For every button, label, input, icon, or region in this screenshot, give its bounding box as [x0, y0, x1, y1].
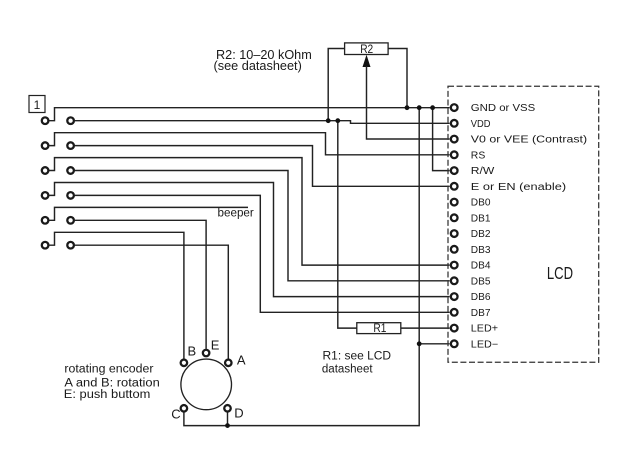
- wire beeper stub: row5 left pin: [49, 207, 248, 220]
- svg-text:(see datasheet): (see datasheet): [214, 59, 302, 73]
- svg-text:DB5: DB5: [471, 276, 491, 287]
- wire GND to R/W pin: [433, 108, 450, 171]
- LCD pin DB7: [451, 309, 458, 316]
- junction on GND wire at R/W branch: [430, 105, 435, 110]
- svg-text:DB4: DB4: [471, 261, 491, 272]
- svg-text:DB7: DB7: [471, 308, 491, 319]
- connector row 3 pins: [42, 167, 74, 174]
- svg-text:E: E: [211, 337, 220, 352]
- connector row 4 pins: [42, 192, 74, 199]
- junction on VDD wire at R2 left leg: [326, 118, 331, 123]
- svg-text:E: push buttom: E: push buttom: [64, 389, 151, 401]
- junction at LED- branch: [417, 341, 422, 346]
- svg-text:rotating encoder: rotating encoder: [64, 363, 153, 375]
- svg-text:DB2: DB2: [471, 229, 491, 240]
- svg-text:1: 1: [34, 98, 41, 112]
- svg-text:LED−: LED−: [471, 339, 499, 350]
- connector row 1 pins: [42, 117, 74, 124]
- R2 wiper arrow: [363, 55, 371, 67]
- wire GND down, bottom rail to encoder C: [184, 108, 419, 426]
- LCD pin V0: [451, 136, 458, 143]
- svg-text:LCD: LCD: [547, 263, 573, 283]
- wire R2 left lead to VDD wire: [328, 49, 344, 121]
- svg-text:DB1: DB1: [471, 213, 491, 224]
- LCD pin RS: [451, 151, 458, 158]
- rotating encoder body: [181, 359, 232, 410]
- LCD pin LED-: [451, 340, 458, 347]
- svg-text:E or EN (enable): E or EN (enable): [471, 182, 566, 193]
- LCD pin E: [451, 183, 458, 190]
- connector row 6 pins: [42, 242, 74, 249]
- wire DB5 net: row3 right pin to LCD DB5 pin: [75, 171, 450, 281]
- potentiometer R2: [345, 42, 389, 56]
- junction encoder D on bottom rail: [225, 423, 230, 428]
- wire RS net: row2 left pin to LCD RS pin: [49, 133, 449, 155]
- LCD pin VDD: [451, 120, 458, 127]
- LCD pin DB2: [451, 230, 458, 237]
- wire DB6 net: row4 left pin to LCD DB6 pin: [49, 183, 449, 297]
- svg-text:R/W: R/W: [471, 166, 495, 177]
- junction on GND wire at ground drop: [417, 105, 422, 110]
- svg-text:R2: R2: [360, 42, 373, 56]
- svg-text:R1: R1: [373, 321, 386, 335]
- svg-text:A: A: [237, 353, 246, 368]
- wire LED- branch: [419, 343, 449, 345]
- encoder pin E: [203, 350, 210, 357]
- svg-text:DB3: DB3: [471, 245, 491, 256]
- LCD pin DB6: [451, 293, 458, 300]
- wire R2 right lead to GND wire: [388, 49, 407, 108]
- LCD pin DB0: [451, 199, 458, 206]
- junction on VDD wire at R1 branch: [335, 118, 340, 123]
- connector row 2 pins: [42, 142, 74, 149]
- wire R1 right lead to LCD LED+ pin: [401, 327, 450, 329]
- wire VDD net: row1 right pin to LCD VDD pin: [75, 121, 450, 124]
- encoder pin A: [225, 360, 232, 367]
- LCD pin R/W: [451, 167, 458, 174]
- wire DB7 net: row4 right pin to LCD DB7 pin: [75, 195, 450, 312]
- encoder pin B: [181, 360, 188, 367]
- wire R2 wiper to LCD V0 pin: [367, 66, 450, 139]
- LCD pin DB1: [451, 214, 458, 221]
- wire E net: row2 right pin to LCD E pin: [75, 146, 450, 187]
- svg-text:LED+: LED+: [471, 324, 498, 335]
- svg-text:GND or VSS: GND or VSS: [471, 103, 536, 114]
- svg-text:RS: RS: [471, 150, 486, 161]
- wire VDD to R1 left lead: [338, 121, 357, 328]
- connector row 5 pins: [42, 217, 74, 224]
- encoder pin D: [224, 405, 231, 412]
- text encoder note: [64, 363, 160, 401]
- svg-text:datasheet: datasheet: [322, 364, 374, 376]
- wire encoder B: row6 left pin down to encoder pin B: [49, 232, 184, 358]
- svg-text:DB0: DB0: [471, 198, 491, 209]
- svg-text:DB6: DB6: [471, 292, 491, 303]
- svg-text:D: D: [234, 406, 243, 421]
- svg-text:C: C: [171, 407, 180, 422]
- svg-text:B: B: [188, 344, 197, 359]
- wire encoder A: row6 right pin down to encoder pin A: [75, 245, 228, 359]
- LCD pin DB5: [451, 277, 458, 284]
- encoder pin C: [181, 405, 188, 412]
- svg-text:VDD: VDD: [471, 119, 491, 130]
- LCD pin GND: [451, 104, 458, 111]
- wire encoder D to bottom rail: [227, 412, 229, 425]
- text R1 note: [322, 351, 391, 376]
- LCD module dashed box: [448, 86, 599, 362]
- junction on GND wire at R2 right leg: [405, 105, 410, 110]
- svg-text:V0 or VEE (Contrast): V0 or VEE (Contrast): [471, 135, 587, 146]
- LCD pin DB4: [451, 262, 458, 269]
- wire DB4 net: row3 left pin to LCD DB4 pin: [49, 158, 449, 266]
- connector pin-1 marker: [29, 96, 45, 113]
- wire encoder E: row5 right pin down to encoder pin E: [75, 220, 206, 349]
- resistor R1: [357, 321, 401, 335]
- svg-text:R1: see LCD: R1: see LCD: [323, 351, 392, 363]
- svg-text:beeper: beeper: [218, 208, 254, 220]
- LCD pin DB3: [451, 246, 458, 253]
- svg-text:A and B: rotation: A and B: rotation: [64, 377, 159, 389]
- LCD pin LED+: [451, 325, 458, 332]
- wire GND net: row1 left pin to LCD GND pin: [49, 108, 449, 121]
- text R2 note: [214, 48, 312, 73]
